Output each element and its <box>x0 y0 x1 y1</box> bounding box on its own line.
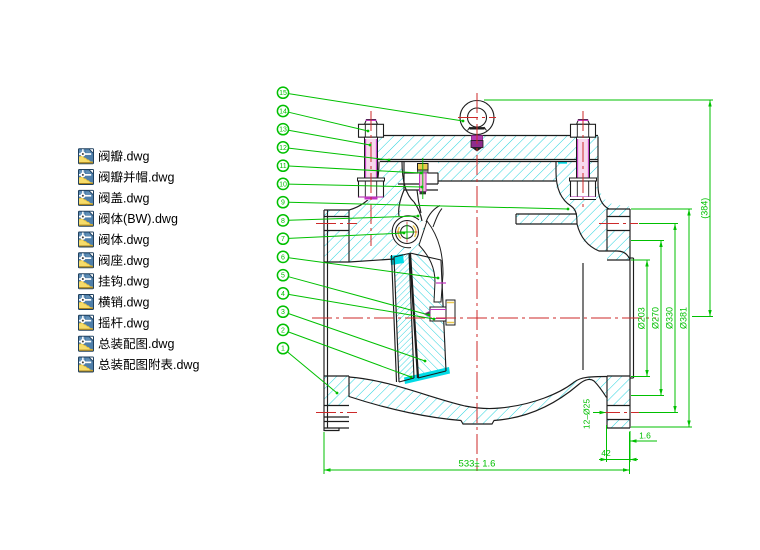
svg-text:10: 10 <box>279 181 287 188</box>
svg-text:(384): (384) <box>700 198 710 219</box>
svg-text:1: 1 <box>281 346 285 353</box>
svg-text:9: 9 <box>281 200 285 207</box>
svg-text:11: 11 <box>279 163 286 170</box>
svg-text:.dwg: .dwg <box>123 191 149 205</box>
svg-text:42: 42 <box>601 448 611 458</box>
svg-text:7: 7 <box>281 236 285 243</box>
svg-text:1.6: 1.6 <box>639 431 651 441</box>
svg-text:.dwg: .dwg <box>152 212 178 226</box>
svg-text:Ø203: Ø203 <box>637 307 647 329</box>
svg-text:5: 5 <box>281 273 285 280</box>
svg-text:B: B <box>127 212 135 226</box>
svg-text:Ø330: Ø330 <box>665 307 675 329</box>
svg-text:13: 13 <box>279 127 287 134</box>
svg-text:.dwg: .dwg <box>123 233 149 247</box>
svg-text:.dwg: .dwg <box>123 150 149 164</box>
svg-text:15: 15 <box>279 90 287 97</box>
svg-text:12–Ø25: 12–Ø25 <box>582 399 592 430</box>
svg-text:3: 3 <box>281 309 285 316</box>
svg-text:14: 14 <box>279 109 287 116</box>
svg-text:8: 8 <box>281 218 285 225</box>
svg-text:.dwg: .dwg <box>148 337 174 351</box>
svg-text:W: W <box>136 212 148 226</box>
svg-text:Ø270: Ø270 <box>651 307 661 329</box>
svg-text:533± 1.6: 533± 1.6 <box>459 459 496 470</box>
svg-text:2: 2 <box>281 327 285 334</box>
svg-text:6: 6 <box>281 254 285 261</box>
svg-text:.dwg: .dwg <box>123 275 149 289</box>
svg-text:.dwg: .dwg <box>173 358 199 372</box>
svg-text:.dwg: .dwg <box>123 254 149 268</box>
svg-text:.dwg: .dwg <box>123 296 149 310</box>
svg-text:Ø381: Ø381 <box>679 307 689 329</box>
svg-text:12: 12 <box>279 145 287 152</box>
svg-text:.dwg: .dwg <box>123 316 149 330</box>
svg-text:.dwg: .dwg <box>148 171 174 185</box>
svg-text:4: 4 <box>281 291 285 298</box>
